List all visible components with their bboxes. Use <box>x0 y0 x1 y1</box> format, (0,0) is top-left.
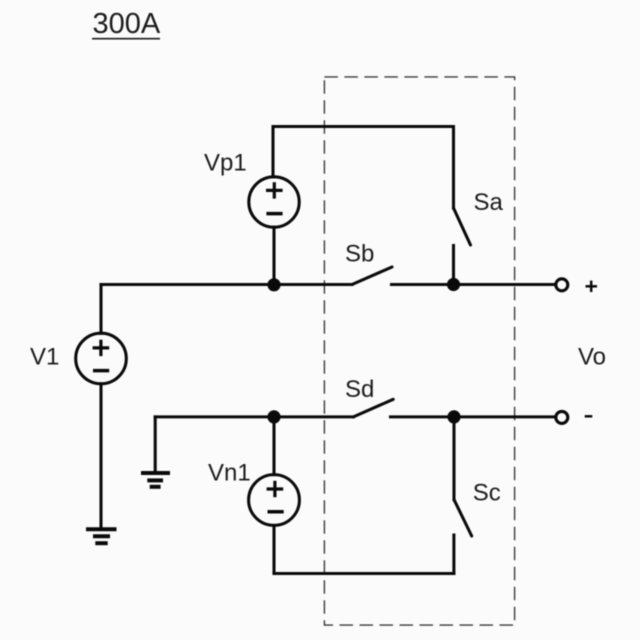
svg-text:Sb: Sb <box>345 240 374 267</box>
svg-text:Sd: Sd <box>345 376 374 403</box>
svg-text:Vn1: Vn1 <box>208 459 251 486</box>
svg-text:Sa: Sa <box>474 189 504 216</box>
svg-text:Vo: Vo <box>578 344 606 371</box>
svg-text:Sc: Sc <box>473 480 501 507</box>
svg-text:300A: 300A <box>93 8 161 40</box>
svg-text:Vp1: Vp1 <box>204 150 247 177</box>
svg-text:V1: V1 <box>30 344 59 371</box>
